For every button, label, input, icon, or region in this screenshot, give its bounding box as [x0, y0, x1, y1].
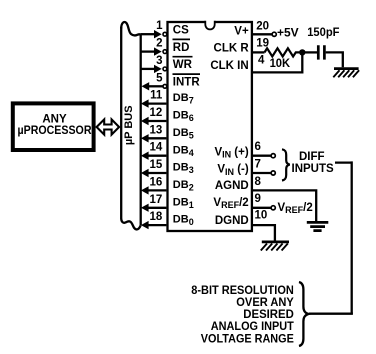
pin 15 label DB3: [173, 162, 194, 176]
svg-text:2: 2: [156, 38, 162, 50]
pin 13 wire DB5: [141, 124, 167, 142]
bidirectional bus arrow: [97, 119, 120, 134]
svg-text:DGND: DGND: [215, 215, 249, 227]
pin 1 wire: [141, 20, 167, 38]
pin 8 wire: [252, 176, 316, 221]
pin 10 wire: [252, 210, 275, 241]
svg-text:CLK IN: CLK IN: [210, 60, 248, 72]
pin 2 label RD with overline: [173, 39, 191, 54]
svg-text:20: 20: [256, 20, 269, 32]
pin 16 wire DB2: [141, 176, 167, 194]
svg-text:4: 4: [258, 54, 265, 66]
pin 7 label VIN(-): [217, 164, 249, 177]
pin 12 label DB6: [173, 110, 194, 124]
wire DIFF INPUTS to right rail: [335, 161, 352, 163]
svg-text:16: 16: [150, 176, 163, 188]
svg-text:3: 3: [156, 55, 162, 67]
IC U1 ADC body: [168, 20, 252, 232]
junction node dot: [299, 49, 305, 55]
svg-text:V+: V+: [234, 26, 249, 38]
resistor R1 10K: [265, 48, 303, 70]
pin 20 label V+: [234, 26, 249, 38]
pin 6 label VIN(+): [214, 146, 248, 159]
svg-text:CS: CS: [173, 25, 189, 37]
pin 18 label DB0: [173, 214, 194, 228]
pin 2 wire: [141, 38, 167, 56]
pin 8 label AGND: [215, 180, 249, 192]
svg-text:RD: RD: [173, 42, 190, 54]
pin 11 label DB7: [173, 92, 194, 106]
svg-text:VIN (+): VIN (+): [214, 146, 248, 159]
microprocessor box ANY uPROCESSOR: [13, 103, 94, 150]
pin 3 wire: [141, 55, 167, 73]
svg-text:+5V: +5V: [277, 25, 299, 39]
pin 19 label CLK R: [214, 43, 250, 55]
pin 10 label DGND: [215, 215, 249, 227]
pin 5 label INTR with overline: [173, 74, 201, 89]
svg-text:7: 7: [255, 159, 261, 171]
uP BUS left rail: [120, 27, 122, 219]
uP BUS top squiggle: [121, 22, 141, 35]
uP BUS label: [123, 105, 135, 145]
svg-text:VIN (-): VIN (-): [217, 164, 249, 177]
uP BUS bottom squiggle: [121, 219, 141, 230]
pin 15 wire DB3: [141, 159, 167, 177]
pin 5 wire INTR: [142, 72, 167, 90]
pin 12 wire DB6: [141, 107, 167, 125]
pin 19 wire: [252, 38, 269, 53]
ground AGND three-bar: [307, 222, 329, 230]
svg-text:17: 17: [150, 194, 163, 206]
pin 4 label CLK IN: [210, 60, 248, 72]
svg-text:CLK R: CLK R: [214, 43, 250, 55]
svg-text:µP BUS: µP BUS: [123, 105, 135, 145]
pin 7 wire: [252, 159, 275, 176]
svg-text:ANY: ANY: [42, 114, 67, 126]
pin 4 wire: [252, 52, 302, 72]
pin 9 wire: [252, 193, 275, 210]
svg-text:150pF: 150pF: [307, 27, 339, 39]
svg-text:10: 10: [255, 210, 268, 222]
svg-text:15: 15: [150, 159, 163, 171]
uP BUS right rail: [140, 34, 142, 225]
svg-text:1: 1: [156, 20, 163, 32]
svg-text:10K: 10K: [270, 56, 291, 70]
wire capacitor to ground: [326, 52, 343, 67]
note text 8-BIT RESOLUTION: [191, 283, 294, 346]
svg-text:µPROCESSOR: µPROCESSOR: [18, 125, 93, 137]
pin 3 label WR with overline: [173, 57, 193, 71]
pin 13 label DB5: [173, 127, 194, 141]
pin 1 label CS: [173, 25, 189, 37]
ground chassis DGND: [261, 242, 289, 251]
svg-text:9: 9: [255, 193, 261, 205]
svg-text:18: 18: [150, 211, 163, 223]
pin 9 label VREF/2 inside: [213, 197, 248, 210]
svg-text:14: 14: [150, 142, 163, 154]
+5V terminal: [272, 25, 299, 39]
VREF/2 terminal label: [278, 202, 313, 215]
svg-text:AGND: AGND: [215, 180, 249, 192]
svg-text:INTR: INTR: [173, 77, 201, 89]
svg-text:8: 8: [255, 176, 262, 188]
ground chassis top right: [333, 69, 359, 78]
svg-text:5: 5: [156, 72, 163, 84]
svg-text:6: 6: [255, 141, 261, 153]
svg-text:WR: WR: [173, 59, 193, 71]
capacitor C1 150pF: [302, 27, 339, 60]
brace 8-bit resolution: [299, 282, 308, 346]
pin 18 wire DB0: [141, 211, 167, 229]
pin 6 wire: [252, 141, 275, 158]
brace DIFF INPUTS: [282, 149, 334, 180]
pin 17 label DB1: [173, 196, 194, 210]
pin 14 label DB4: [173, 144, 194, 158]
svg-text:11: 11: [150, 90, 163, 102]
pin 11 wire DB7: [141, 90, 167, 108]
svg-text:12: 12: [150, 107, 163, 119]
svg-text:INPUTS: INPUTS: [292, 163, 335, 175]
svg-text:13: 13: [150, 124, 163, 136]
pin 16 label DB2: [173, 179, 194, 193]
pin 14 wire DB4: [141, 142, 167, 160]
pin 17 wire DB1: [141, 194, 167, 212]
svg-text:VOLTAGE RANGE: VOLTAGE RANGE: [201, 331, 294, 345]
pin 20 wire: [252, 20, 272, 34]
wire right rail to bottom brace: [309, 313, 353, 315]
wire right rail vertical: [351, 161, 353, 313]
svg-text:DIFF: DIFF: [299, 151, 325, 163]
